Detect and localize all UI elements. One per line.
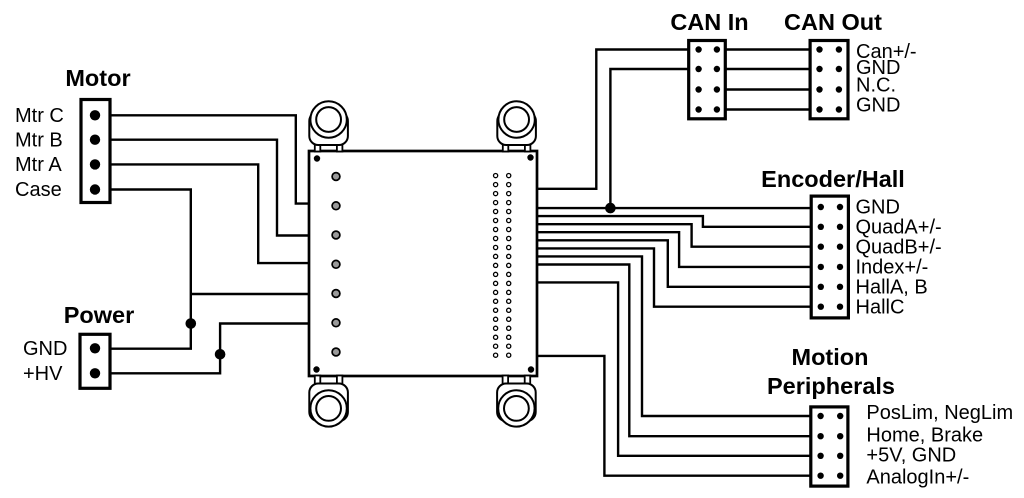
svg-text:+HV: +HV — [23, 363, 63, 385]
wire Case to Power GND — [110, 190, 191, 349]
wire CAN In pin2 to CAN Out pin2 — [725, 68, 810, 70]
svg-text:CAN In: CAN In — [670, 9, 748, 35]
mounting lug top-right — [497, 101, 536, 151]
board header pin grid (2 x 21 holes) — [494, 174, 511, 358]
wire CAN In pin1 to CAN Out pin1 — [725, 48, 810, 50]
svg-text:N.C.: N.C. — [856, 75, 896, 97]
svg-text:PosLim, NegLim: PosLim, NegLim — [866, 402, 1013, 424]
svg-text:Mtr C: Mtr C — [15, 105, 64, 127]
svg-text:Motor: Motor — [65, 65, 130, 91]
svg-text:Mtr B: Mtr B — [15, 129, 63, 151]
J6 pins — [817, 413, 843, 479]
wire CAN branch to CAN In pin2 — [610, 69, 688, 208]
J1 pins — [90, 110, 100, 195]
svg-text:Peripherals: Peripherals — [767, 373, 895, 399]
wire Case/GND branch to board — [191, 293, 309, 295]
svg-text:HallC: HallC — [856, 296, 905, 318]
svg-text:Encoder/Hall: Encoder/Hall — [761, 166, 905, 192]
svg-text:GND: GND — [23, 338, 67, 360]
mounting lug bottom-left — [309, 376, 348, 427]
connector J1 Motor — [81, 100, 110, 203]
svg-text:HallA, B: HallA, B — [856, 277, 928, 299]
wire board to Encoder QuadA — [537, 216, 811, 227]
wire board to Encoder Index — [537, 232, 811, 267]
svg-text:Case: Case — [15, 179, 62, 201]
svg-text:QuadB+/-: QuadB+/- — [856, 236, 942, 258]
wire board to Encoder HallA,B — [537, 240, 811, 286]
svg-text:+5V, GND: +5V, GND — [866, 445, 956, 467]
connector J3 CAN In — [689, 41, 726, 119]
svg-text:Motion: Motion — [792, 344, 869, 370]
svg-text:GND: GND — [856, 95, 900, 117]
svg-text:Mtr A: Mtr A — [15, 154, 62, 176]
svg-text:AnalogIn+/-: AnalogIn+/- — [866, 467, 969, 489]
svg-text:Power: Power — [64, 302, 135, 328]
wire board to Motion +5V — [537, 282, 811, 455]
connector J4 CAN Out — [810, 41, 848, 119]
wire board to Encoder GND — [537, 207, 811, 209]
svg-text:Home, Brake: Home, Brake — [866, 425, 983, 447]
wire board to Motion AnalogIn — [537, 356, 811, 476]
junction Case/GND tie — [186, 318, 197, 329]
board corner fiducial dots — [313, 154, 534, 372]
svg-text:GND: GND — [856, 197, 900, 219]
mounting lug bottom-right — [497, 376, 536, 427]
wire board to Motion Home — [537, 265, 811, 437]
connector J5 Encoder/Hall — [811, 196, 848, 318]
J5 pins — [818, 204, 844, 310]
mounting lug top-left — [309, 101, 348, 151]
wire board to CAN In pin1 — [537, 50, 689, 189]
J2 pins — [90, 343, 100, 378]
J4 pins — [816, 46, 842, 112]
wire Mtr A to board — [110, 164, 309, 263]
svg-text:Index+/-: Index+/- — [856, 257, 929, 279]
wire CAN In pin4 to CAN Out pin4 — [725, 108, 810, 110]
wire Mtr B to board — [110, 140, 309, 236]
board left pad column (7 gray pads) — [332, 173, 340, 356]
svg-text:CAN Out: CAN Out — [784, 9, 882, 35]
wire board to Encoder HallC — [537, 248, 811, 306]
wire board to Motion PosLim — [537, 256, 811, 416]
junction CAN/Encoder GND — [605, 203, 616, 214]
wire Mtr C to board — [110, 115, 309, 203]
board U1 (controller module body) — [309, 151, 537, 376]
wire +HV to board — [110, 324, 309, 374]
J3 pins — [695, 46, 720, 112]
junction +HV tie — [215, 349, 226, 360]
connector J2 Power — [80, 334, 110, 388]
wire board to Encoder QuadB — [537, 224, 811, 247]
svg-text:QuadA+/-: QuadA+/- — [856, 217, 942, 239]
connector J6 Motion Peripherals — [811, 407, 848, 486]
wire CAN In pin3 to CAN Out pin3 — [725, 88, 810, 90]
